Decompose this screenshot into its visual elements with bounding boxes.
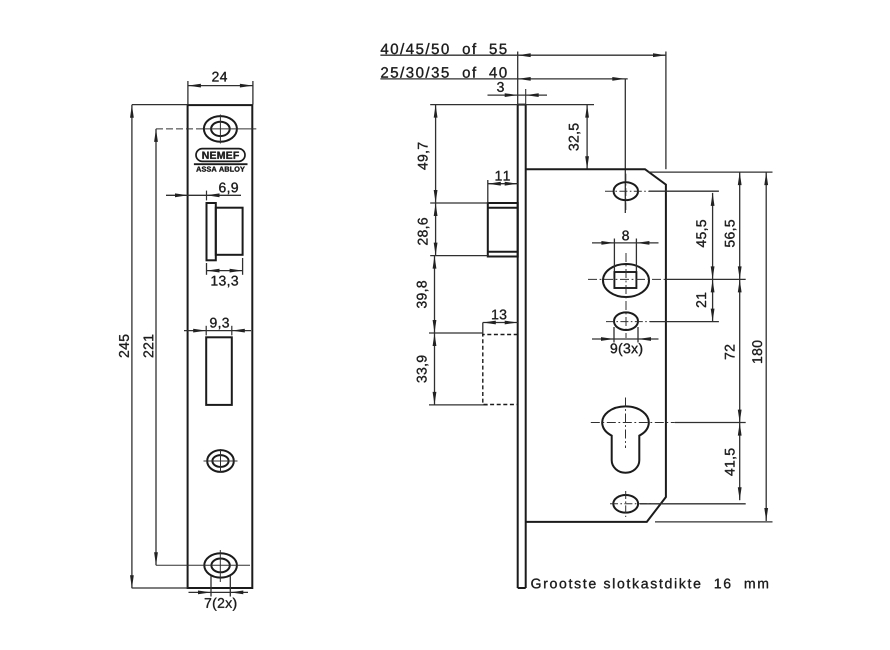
dim 245 arrows (130, 105, 134, 589)
dim 245 label (119, 335, 129, 358)
case bottom extension right (655, 521, 773, 523)
dim 72 line (739, 279, 741, 422)
dim 6,9 line (166, 191, 241, 201)
screw hole middle (inner) (212, 455, 228, 467)
cylinder crosshair (591, 398, 675, 449)
dim 45,5 line (712, 193, 714, 280)
note grootste slotkastdikte (531, 578, 768, 588)
screw hole middle (outer) (207, 450, 234, 472)
ASSA ABLOY text (196, 167, 245, 172)
dim 28,6 arrows (434, 203, 438, 256)
screw hole top crosshair (204, 115, 256, 144)
deadbolt thrown dashed box (483, 335, 518, 405)
dim 13 label (492, 310, 506, 320)
latch lip rect (207, 203, 216, 260)
dim 221 label (143, 335, 153, 358)
dim 3 line (488, 89, 548, 105)
dim 49,7 label (418, 143, 430, 170)
dim 221 extension bottom (156, 564, 205, 566)
dim 245 line (131, 105, 133, 589)
dim 13,3 label (212, 276, 239, 288)
dim 28,6 line (435, 203, 437, 256)
faceplate side strip (518, 105, 526, 588)
dim 3 arrows (505, 93, 539, 97)
dim 9(3x) extensions (614, 327, 638, 343)
dim 13 line (483, 322, 518, 324)
case hole top crosshair (605, 174, 649, 210)
NEMEF logo stadium (196, 149, 245, 162)
screw hole bottom (inner) (211, 559, 229, 573)
dim 180 label (752, 341, 762, 363)
dim 56,5 arrows (738, 172, 742, 279)
screw hole middle crosshair (204, 449, 238, 473)
case hole bottom (613, 495, 638, 513)
dim 49,7 arrows (434, 105, 438, 203)
dim 39,8 arrows (433, 256, 437, 333)
dim 21 label (696, 293, 706, 308)
dim 221 arrows (154, 129, 158, 565)
spindle square (614, 272, 636, 288)
dim 245 extension top (132, 104, 188, 106)
dim 72 label (725, 345, 735, 359)
dim 41,5 arrows (738, 423, 742, 501)
dim 33,9 arrows (433, 333, 437, 405)
dim 6,9 label (219, 183, 238, 195)
dim 24 arrows (188, 84, 253, 88)
dim 13 extension (482, 323, 484, 337)
case hole bottom crosshair (610, 491, 652, 517)
dim 13,3 line (207, 270, 243, 272)
dim 25/30/35 of 40 line (380, 78, 627, 80)
dim 33,9 line (434, 333, 436, 405)
deadbolt bottom extension (429, 404, 488, 406)
dim 41,5 line (739, 423, 741, 501)
faceplate extension up (517, 52, 519, 105)
dim 25/30/35 of 40 arrows (518, 77, 626, 81)
dim 9,3 label (210, 318, 229, 330)
dim 9(3x) line (592, 338, 659, 340)
hole bottom centre extension (640, 503, 746, 505)
dim 40/45/50 of 55 label (381, 43, 507, 54)
NEMEF logo text (202, 152, 239, 159)
dim 3 label (497, 82, 504, 92)
dim 21 line (712, 279, 714, 321)
dim 11 extension (487, 180, 489, 203)
dim 25/30/35 of 40 label (381, 67, 506, 78)
dim 24 extensions (188, 81, 253, 105)
case hole middle (614, 312, 638, 330)
dim 9(3x) arrows (601, 337, 651, 341)
dim 32,5 line (586, 105, 588, 170)
dim 9(3x) label (611, 343, 643, 356)
dim 180 arrows (764, 172, 768, 521)
dim 8 label (622, 231, 629, 241)
dim 221 line (155, 129, 157, 565)
screw hole top (inner) (211, 122, 230, 136)
spindle crosshair (588, 253, 666, 338)
dim 245 extension bottom (132, 587, 188, 589)
dim 180 line (765, 172, 767, 521)
dim 72 arrows (738, 279, 742, 422)
spindle centre extension (666, 278, 746, 280)
dim 8 arrows (601, 241, 649, 245)
latch body rect (216, 208, 243, 255)
latch side view (488, 203, 518, 257)
dim 13 arrows (483, 321, 518, 325)
euro cylinder hole (602, 406, 649, 472)
dim 221 extension top (156, 128, 204, 130)
dim 56,5 label (725, 220, 737, 247)
deadbolt top extension (429, 332, 483, 334)
dim 56,5 line (739, 172, 741, 279)
latch bottom extension (430, 255, 488, 257)
dim 7(2x) arrows (198, 591, 243, 595)
lock case outline (526, 169, 666, 522)
NEMEF logo underline (194, 163, 248, 165)
dim 41,5 label (725, 449, 736, 476)
dim 7(2x) line (189, 591, 249, 593)
dim 55 extension right (665, 52, 667, 170)
dim 8 extensions (614, 239, 636, 272)
dim 32,5 arrows (585, 105, 589, 170)
screw hole bottom crosshair (205, 550, 250, 582)
dim 11 label (496, 171, 510, 181)
dim 39,8 line (434, 256, 436, 333)
dim 13,3 extensions (207, 258, 243, 275)
dim 39,8 label (417, 281, 429, 308)
dim 28,6 label (418, 218, 430, 245)
cylinder centre extension (675, 422, 746, 424)
dim 49,7 line (435, 105, 437, 203)
dim 40/45/50 of 55 arrows (518, 53, 666, 57)
dim 24 label (212, 72, 227, 82)
case hole middle crosshair (606, 321, 650, 323)
hole middle centre extension (650, 321, 719, 323)
dim 24 line (188, 85, 253, 87)
screw hole top (outer) (204, 116, 237, 142)
dim 45,5 arrows (711, 193, 715, 280)
dim 40 extension down (624, 79, 626, 213)
deadbolt slot rect (206, 337, 232, 405)
dim 9,3 line (184, 326, 251, 336)
dim 11 arrows (488, 182, 518, 186)
dim 11 line (488, 183, 518, 185)
screw hole bottom (outer) (204, 553, 237, 577)
dim 7(2x) label (205, 598, 237, 611)
dim 6,9 arrows (175, 193, 220, 197)
spindle hub ellipse (603, 264, 649, 297)
dim 9,3 arrows (193, 329, 245, 333)
dim 40/45/50 of 55 line (380, 54, 666, 56)
case hole top (614, 182, 638, 200)
faceplate front view (188, 105, 253, 588)
dim 33,9 label (417, 356, 429, 383)
dim 21 arrows (711, 279, 715, 321)
dim 45,5 label (696, 220, 707, 247)
hole top centre extension (649, 190, 719, 192)
dim 32,5 label (569, 124, 581, 151)
dim 13,3 arrows (207, 269, 243, 273)
dim 7(2x) extensions (211, 576, 230, 597)
case top extension right (648, 171, 773, 173)
latch top extension (430, 202, 488, 204)
dim 8 line (592, 242, 659, 244)
dim 32,5 extension top (430, 104, 594, 106)
